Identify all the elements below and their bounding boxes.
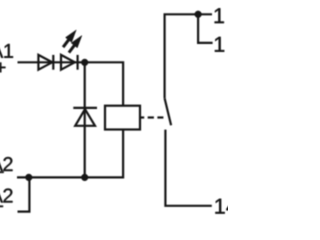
label terminal 14 digit 1 — [215, 199, 224, 214]
label terminal 11 upper digit 1 — [215, 8, 224, 23]
wire terminal 11 to contact — [165, 14, 212, 98]
junction node diodes/coil — [81, 59, 88, 66]
label polarity plus — [0, 63, 5, 73]
label A2 lower digit 2 — [3, 189, 12, 203]
label A2 lower letter A — [0, 189, 3, 203]
label polarity minus upper — [0, 172, 4, 173]
junction node A2 terminals — [25, 174, 32, 181]
label A2 upper digit 2 — [3, 157, 12, 171]
junction node terminal 11 — [195, 11, 202, 18]
diode V1 cathode bar — [52, 55, 54, 70]
LED arrow 1 head — [66, 30, 77, 42]
LED V2 cathode bar — [76, 55, 78, 70]
label A1 letter A — [0, 44, 3, 58]
contact blade — [165, 98, 172, 125]
label A2 upper letter A — [0, 157, 3, 171]
LED arrow 2 tail — [69, 44, 75, 52]
wire to coil — [85, 62, 123, 105]
diode V1 — [38, 55, 52, 70]
diode V3 freewheel triangle — [75, 109, 95, 126]
relay coil K1 — [105, 106, 140, 130]
label A1 digit 1 — [4, 44, 13, 58]
wire A2 second terminal jumper — [18, 177, 30, 211]
diode V3 freewheel cathode bar — [73, 107, 97, 109]
label terminal 11 lower digit 1 — [215, 37, 224, 52]
wire freewheel branch — [84, 62, 86, 177]
wire A1 input — [18, 61, 85, 63]
wire contact to terminal 14 — [165, 130, 211, 206]
LED V2 — [61, 55, 75, 70]
junction node freewheel/A2 bus — [81, 174, 88, 181]
actuator dashed link — [140, 116, 164, 118]
label terminal 14 digit 4 — [226, 199, 237, 214]
LED arrow 2 head — [71, 36, 82, 48]
wire coil to A2 bus — [17, 130, 123, 178]
label polarity minus lower — [0, 206, 3, 207]
wire terminal 11 branch — [198, 14, 213, 43]
LED arrow 1 tail — [63, 39, 69, 48]
